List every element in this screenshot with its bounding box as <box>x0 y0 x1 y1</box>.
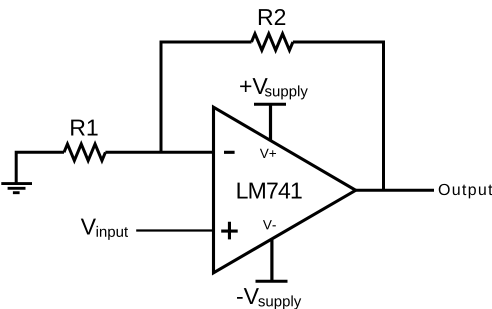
label +Vsupply <box>240 78 308 99</box>
wire: V- pin to -V supply <box>270 239 273 281</box>
label -Vsupply <box>237 288 301 309</box>
wire: top row to R2 <box>160 41 252 44</box>
inverting input marker - <box>224 151 235 154</box>
wire: R1 to inverting input <box>105 151 215 154</box>
label R1 <box>71 120 97 136</box>
+V supply bar <box>254 103 286 106</box>
pin label V- <box>263 220 276 229</box>
wire: feedback riser at node A <box>160 41 163 153</box>
wire: R2 to right column <box>293 41 385 44</box>
wire: output lead <box>355 189 434 192</box>
wire: ground riser and lead to R1 <box>15 152 64 182</box>
-V supply bar <box>256 280 288 283</box>
label LM741 <box>238 183 302 199</box>
wire: Vinput lead to non-inverting input <box>136 229 215 231</box>
label Vinput <box>81 219 128 240</box>
resistor R1 <box>64 144 105 161</box>
wire: +V supply to V+ pin <box>269 104 272 141</box>
ground <box>1 184 32 193</box>
label Output <box>439 184 492 198</box>
label R2 <box>259 9 285 25</box>
resistor R2 <box>252 34 293 51</box>
pin label V+ <box>260 149 276 158</box>
op-amp U1 LM741 <box>214 107 356 273</box>
wire: right column down to output node <box>382 41 385 191</box>
non-inverting input marker + <box>221 222 238 240</box>
